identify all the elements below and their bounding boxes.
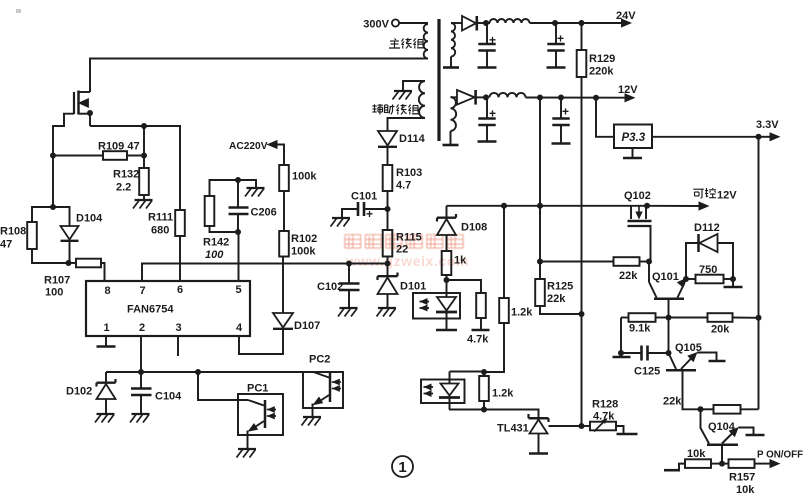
svg-text:9.1k: 9.1k — [629, 323, 651, 335]
transistor Q MOSFET switch — [73, 92, 75, 114]
ground C102 — [340, 307, 358, 309]
capacitor 24V filter 1 — [486, 23, 488, 44]
wire R125 to divider line — [540, 306, 582, 314]
node scan speck — [16, 9, 21, 13]
resistor R115 22 — [383, 230, 393, 257]
svg-text:D112: D112 — [694, 222, 720, 234]
wire pin2 row — [106, 371, 314, 373]
zener diode D102 — [105, 372, 107, 383]
svg-text:7: 7 — [139, 285, 145, 297]
svg-text:R129: R129 — [589, 53, 615, 65]
wire Q104 collector down — [721, 446, 723, 464]
wire gate — [53, 114, 74, 156]
wire base row vertical — [668, 318, 670, 354]
regulator P3.3 — [614, 125, 652, 149]
node gate/R109 — [50, 153, 56, 159]
resistor R132 2.2 — [143, 156, 145, 169]
wire Q105 collector down — [683, 372, 701, 410]
wire aux bottom to D114 — [388, 118, 426, 131]
node opto2 top — [481, 369, 487, 375]
node divider/ref — [579, 423, 585, 429]
wire to 12V rectifier — [451, 96, 458, 98]
svg-text:300V: 300V — [363, 19, 389, 31]
wire 9.1k left to ground — [620, 318, 622, 354]
svg-text:24V: 24V — [616, 10, 636, 22]
svg-text:C206: C206 — [251, 207, 277, 219]
wire Q101 base down — [668, 300, 670, 318]
resistor R108 47 — [32, 207, 53, 222]
resistor 1k — [442, 251, 452, 275]
node rectifier output 24V — [483, 20, 489, 26]
label 主绕组 — [395, 39, 397, 41]
wire R103 to VCC node — [387, 191, 389, 209]
node R125 top — [537, 259, 543, 265]
node 24V cap2 — [552, 20, 558, 26]
label 辅助绕组 — [372, 105, 376, 107]
resistor 20k — [669, 317, 708, 319]
node C125 left — [618, 350, 624, 356]
node 1.2k tap — [501, 203, 507, 209]
node 20k right on 3.3V rail — [756, 315, 762, 321]
node Q104 collector — [719, 461, 725, 467]
wire 12V secondary bottom bar — [450, 131, 452, 145]
svg-text:3: 3 — [175, 322, 181, 334]
inductor 24V filter — [490, 19, 530, 23]
svg-text:12V: 12V — [618, 84, 638, 96]
wire node down from source — [143, 126, 145, 156]
svg-text:R115: R115 — [396, 232, 422, 244]
svg-text:1k: 1k — [454, 255, 467, 267]
capacitor C102 — [348, 264, 350, 284]
svg-text:FAN6754: FAN6754 — [127, 304, 174, 316]
svg-text:Q102: Q102 — [624, 190, 651, 202]
resistor 1.2k (lower) — [483, 372, 485, 376]
resistor R142 100 — [205, 196, 215, 226]
ground C104 — [132, 413, 150, 415]
resistor R125 22k — [539, 262, 541, 280]
label P ON/OFF arrow — [755, 463, 771, 465]
node pin2 — [138, 369, 144, 375]
wire R107 to pin8 — [101, 263, 105, 281]
wire 3.3V rail down right side — [758, 137, 760, 318]
resistor 1.2k (upper) — [503, 206, 505, 298]
ground PC2 — [303, 416, 321, 418]
transformer 12V secondary winding — [451, 97, 457, 131]
transformer core — [437, 19, 440, 141]
capacitor 24V filter 2 — [555, 23, 557, 44]
wire R109 to node — [127, 155, 144, 157]
transformer auxiliary winding — [419, 81, 425, 118]
svg-text:1: 1 — [398, 459, 406, 476]
node page marker 1 — [392, 456, 413, 477]
node LED/4.7k — [444, 277, 450, 283]
svg-text:22: 22 — [396, 244, 408, 256]
svg-text:22k: 22k — [547, 293, 566, 305]
node C206 top — [235, 177, 241, 183]
svg-text:10k: 10k — [736, 484, 755, 496]
svg-text:R111: R111 — [148, 212, 173, 224]
node 12V sense tap — [537, 95, 543, 101]
wire 300V to primary — [399, 22, 428, 24]
svg-text:C125: C125 — [634, 366, 660, 378]
svg-text:4.7: 4.7 — [396, 180, 411, 192]
wire rail to 可控12V arrow — [647, 205, 699, 207]
optocoupler PC1 LED side — [413, 293, 460, 319]
svg-text:680: 680 — [151, 225, 169, 237]
svg-text:8: 8 — [104, 285, 110, 297]
svg-text:100k: 100k — [291, 246, 316, 258]
svg-text:C102: C102 — [317, 281, 343, 293]
label 12V arrow — [625, 93, 636, 102]
wire to opto2 LED — [450, 371, 485, 373]
capacitor C206 — [210, 180, 257, 196]
wire D114 to R103 — [387, 147, 389, 165]
wire source down — [89, 114, 91, 126]
svg-text:+: + — [562, 105, 569, 119]
zener diode D108 — [446, 206, 448, 218]
wire R142 bottom — [210, 226, 239, 232]
resistor 100k (line sense) — [279, 165, 289, 191]
node Q101 emitter / 750 — [683, 276, 689, 282]
wire Q104 emitter to bar — [739, 428, 754, 435]
resistor 9.1k — [621, 317, 629, 319]
wire pin1 to bar ground — [105, 336, 107, 346]
node MOSFET source — [87, 110, 93, 116]
label 3.3V arrow — [759, 136, 771, 138]
rectifier diode (12V) — [457, 90, 475, 105]
node source/R132 — [141, 123, 147, 129]
svg-text:R125: R125 — [547, 281, 573, 293]
wire to pin5 (crosses bus) — [238, 232, 240, 281]
svg-text:D107: D107 — [294, 320, 320, 332]
svg-text:R107: R107 — [44, 275, 70, 287]
svg-text:D101: D101 — [400, 281, 426, 293]
zener diode D101 — [387, 264, 389, 277]
resistor R111 680 — [175, 210, 185, 236]
node 12V cap2 — [558, 95, 564, 101]
wire D108 to 1k — [446, 235, 448, 251]
wire 12V to P3.3 — [596, 98, 614, 137]
node 750/D112 right — [730, 276, 736, 282]
svg-text:+: + — [489, 33, 496, 47]
label 可控12V arrow — [699, 201, 710, 210]
svg-text:22k: 22k — [663, 396, 682, 408]
capacitor C104 — [140, 372, 142, 388]
svg-text:1: 1 — [103, 322, 109, 334]
node rectifier output 12V — [483, 94, 489, 100]
svg-text:3.3V: 3.3V — [756, 119, 779, 131]
wire sense row (12V to Q102) — [447, 205, 648, 207]
svg-text:AC220V: AC220V — [229, 141, 268, 152]
node C101/VCC — [385, 206, 391, 212]
bar ground 9.1k/C125 — [613, 356, 631, 359]
wire 3.3V rail to 22k — [758, 318, 760, 410]
capacitor 12V filter 1 — [486, 98, 488, 119]
node sense/22k row — [537, 203, 543, 209]
node R109/R132 — [141, 153, 147, 159]
wire Q105 emitter to bar — [697, 353, 717, 361]
svg-text:1.2k: 1.2k — [492, 388, 514, 400]
transformer T1 primary winding — [424, 24, 428, 59]
svg-text:100: 100 — [205, 249, 224, 261]
ground C101 — [332, 217, 350, 219]
resistor R109 47 — [53, 155, 103, 157]
wire R115 to bus — [387, 257, 389, 264]
bar ground R128 — [616, 426, 624, 434]
svg-text:4: 4 — [236, 322, 243, 334]
wire to TL431 — [484, 410, 539, 418]
ground R132 — [143, 195, 145, 200]
node 300V input terminal — [392, 19, 399, 26]
svg-text:2: 2 — [139, 322, 145, 334]
node C102 on bus — [346, 261, 352, 267]
wire pin2 down — [140, 336, 142, 372]
transformer 24V secondary winding — [451, 23, 455, 57]
wire Q102 gate down — [650, 226, 652, 262]
svg-text:D114: D114 — [399, 133, 426, 145]
svg-text:D108: D108 — [461, 222, 487, 234]
svg-text:100k: 100k — [292, 171, 317, 183]
wire 12V sense vertical down — [539, 98, 541, 262]
svg-text:PC2: PC2 — [309, 354, 330, 366]
svg-text:R102: R102 — [291, 233, 317, 245]
wire 24V rail — [486, 22, 490, 24]
wire (none) watermark decorative — [345, 234, 361, 236]
svg-text:R132: R132 — [113, 169, 139, 181]
node Q101 base row — [666, 315, 672, 321]
svg-text:5: 5 — [235, 284, 241, 296]
node VCC bus end — [385, 261, 391, 267]
node Q105 base — [666, 350, 672, 356]
wire 100k to R102 — [283, 191, 285, 231]
bar ground 750 — [732, 279, 734, 287]
IC U1 FAN6754 — [86, 281, 250, 336]
wire TL431 ref to divider — [549, 425, 582, 427]
resistor R107 100 — [69, 262, 77, 264]
resistor R103 4.7 — [383, 165, 393, 191]
ground PC1 — [238, 448, 256, 450]
wire secondary top to rectifier — [451, 22, 462, 24]
wire aux top to ground — [403, 81, 425, 91]
resistor 22k (Q102 gate) — [540, 261, 614, 263]
svg-text:PC1: PC1 — [247, 383, 268, 395]
node R108/D104 top — [50, 204, 56, 210]
svg-text:47: 47 — [0, 239, 12, 251]
wire 1.2k to opto2 row — [484, 323, 504, 372]
node D104/R108 bottom — [66, 260, 72, 266]
ground C206 top — [247, 187, 265, 189]
rectifier diode (24V) — [462, 16, 476, 31]
ground D102 — [97, 413, 115, 415]
svg-text:220k: 220k — [589, 66, 614, 78]
svg-text:R108: R108 — [0, 226, 26, 238]
resistor R128 4.7k (adjustable) — [582, 425, 591, 427]
node 12V to P3.3 — [593, 95, 599, 101]
node R142/C206 bottom — [235, 229, 241, 235]
node TL431 cathode row — [481, 407, 487, 413]
node Q104 base tap — [698, 406, 704, 412]
capacitor 12V filter 2 — [560, 98, 562, 119]
wire D107 up to R102 — [282, 257, 284, 314]
resistor 22k (Q105 collector) — [714, 405, 741, 414]
svg-text:+: + — [489, 107, 496, 121]
optocoupler PC2 LED side — [421, 380, 465, 404]
bar ground LED1 — [436, 329, 457, 332]
svg-text:R142: R142 — [203, 237, 229, 249]
resistor 750 — [686, 278, 696, 280]
wire VCC node to R115 — [387, 209, 389, 230]
diode D107 — [273, 313, 293, 328]
wire R111 to pin6 — [179, 236, 181, 281]
node divider mid — [579, 311, 585, 317]
svg-text:R157: R157 — [729, 472, 755, 484]
resistor 4.7k — [447, 280, 482, 293]
node Q102 source on rail — [644, 203, 650, 209]
svg-text:P3.3: P3.3 — [622, 132, 646, 144]
svg-text:C104: C104 — [155, 391, 182, 403]
wire secondary bottom bar — [450, 57, 452, 68]
svg-text:22k: 22k — [619, 270, 638, 282]
diode D114 — [378, 131, 397, 146]
svg-text:R128: R128 — [592, 399, 618, 411]
ground aux winding — [394, 90, 412, 92]
svg-text:12V: 12V — [717, 190, 737, 202]
svg-text:2.2: 2.2 — [116, 182, 131, 194]
wire 1k to LED node — [446, 275, 448, 280]
label 24V arrow — [621, 18, 632, 27]
wire 12V rail — [526, 97, 626, 99]
svg-text:100: 100 — [45, 287, 63, 299]
wire AC220V to 100k — [277, 145, 284, 166]
ground P3.3 — [632, 148, 634, 158]
svg-text:20k: 20k — [711, 324, 730, 336]
bar ground TL431 — [529, 452, 548, 455]
svg-text:D102: D102 — [66, 386, 92, 398]
wire gate node down — [52, 156, 54, 208]
node gate/Q101 collector — [646, 259, 652, 265]
inductor 12V filter — [490, 93, 526, 98]
node 3.3V tap — [756, 134, 762, 140]
svg-text:1.2k: 1.2k — [511, 307, 533, 319]
svg-text:D104: D104 — [76, 213, 103, 225]
svg-text:+: + — [557, 32, 564, 46]
wire opto2 bottom row — [449, 409, 484, 411]
wire pin4 to D107 — [239, 329, 283, 354]
svg-text:P ON/OFF: P ON/OFF — [757, 450, 803, 461]
node R129 tap — [579, 20, 585, 26]
svg-text:Q101: Q101 — [652, 271, 679, 283]
resistor R129 220k — [581, 23, 583, 50]
ground D101 — [378, 307, 396, 309]
svg-text:6: 6 — [177, 284, 183, 296]
wire primary bottom to MOSFET drain — [90, 59, 428, 93]
svg-text:TL431: TL431 — [497, 423, 529, 435]
svg-text:R103: R103 — [396, 167, 422, 179]
svg-text:4.7k: 4.7k — [467, 334, 489, 346]
wire pin7 VCC bus — [142, 264, 388, 282]
wire R129 long vertical to TL431 ref — [581, 77, 583, 426]
bar ground 10k — [679, 464, 685, 470]
svg-text:C101: C101 — [351, 191, 377, 203]
wire source row to R111 — [90, 126, 180, 210]
svg-text:+: + — [366, 207, 373, 221]
svg-text:10k: 10k — [687, 448, 706, 460]
capacitor C125 — [621, 352, 641, 354]
bar ground 4.7k — [472, 329, 490, 332]
svg-text:R109 47: R109 47 — [98, 141, 140, 153]
diode D104 — [53, 207, 70, 226]
resistor R157 10k — [722, 463, 729, 465]
svg-text:750: 750 — [699, 264, 717, 276]
node PC1 branch — [195, 369, 201, 375]
resistor R102 100k — [279, 231, 289, 257]
wire pin3 stub — [177, 336, 179, 356]
wire P3.3 to 3.3V — [652, 136, 759, 138]
